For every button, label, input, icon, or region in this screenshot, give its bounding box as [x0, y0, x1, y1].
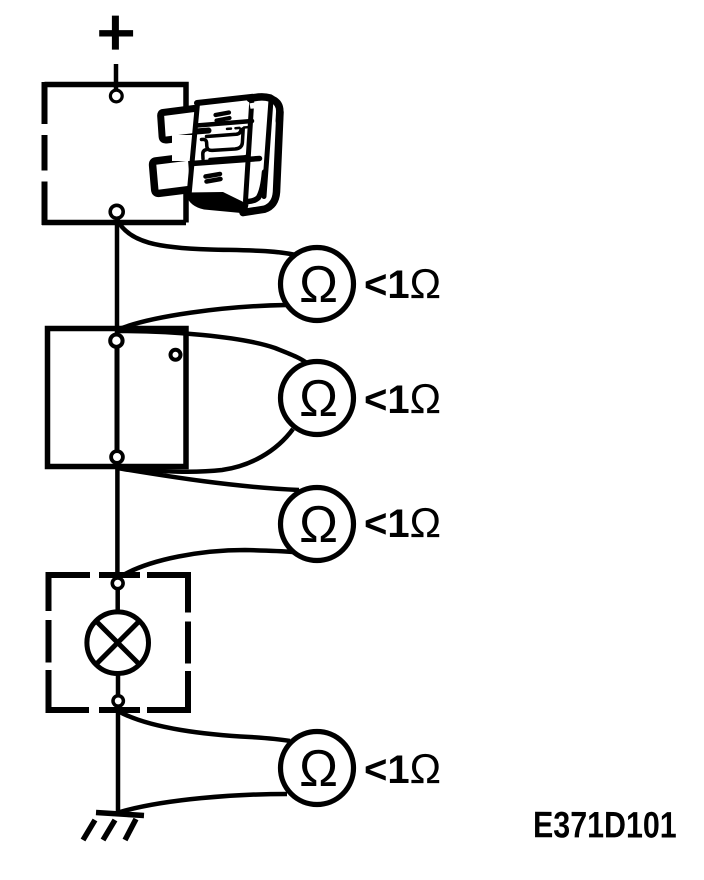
fuse top right white notch — [250, 102, 259, 109]
wire switch bottom to lamp top terminal — [115, 464, 120, 578]
fuse top band ticks — [227, 127, 252, 129]
fuse side panel right edge — [243, 112, 280, 213]
ohmmeter M2 — [281, 362, 354, 435]
wire lamp box internal lower — [116, 674, 121, 696]
terminal node fuse box bottom — [110, 205, 123, 218]
svg-text:<1Ω: <1Ω — [364, 260, 441, 307]
wire from + to fuse box — [114, 64, 119, 90]
ohmmeter M4 — [281, 732, 354, 805]
switch box — [48, 329, 187, 467]
wire W7 lamp bottom terminal to ohmmeter4 — [118, 711, 290, 741]
fuse box (dashed outline) — [42, 82, 186, 225]
svg-text:<1Ω: <1Ω — [364, 745, 441, 792]
ohmmeter M3 — [281, 488, 354, 561]
fuse body bottom edge (filled band) — [186, 192, 248, 214]
fuse rating mark lower — [206, 174, 221, 182]
svg-text:Ω: Ω — [299, 256, 338, 314]
fuse body left edge — [189, 104, 198, 198]
fuse element bottom wall — [202, 129, 244, 151]
fuse body silhouette — [189, 95, 282, 213]
fuse body top edge — [197, 97, 252, 103]
fuse top band line — [197, 121, 253, 126]
wire W4 switch bottom terminal to ohmmeter2 — [117, 429, 293, 472]
wire switch internal — [115, 338, 120, 462]
wire lamp box internal upper — [115, 589, 120, 612]
fuse element left down hook — [203, 150, 207, 159]
terminal node lamp top — [112, 578, 123, 589]
terminal node switch bottom — [111, 451, 123, 463]
svg-text:E371D101: E371D101 — [533, 805, 677, 847]
fuse body top right corner — [250, 97, 280, 121]
fuse face right boundary — [246, 98, 253, 202]
fuse bottom band line — [192, 159, 260, 164]
battery positive symbol + — [99, 16, 133, 50]
wire W8 ground lead to ohmmeter4 — [120, 794, 287, 812]
svg-text:<1Ω: <1Ω — [364, 375, 441, 422]
fuse side panel inner line — [264, 100, 271, 197]
upper blade prong — [161, 108, 200, 140]
wire W1 fuse terminal to ohmmeter1 — [117, 219, 296, 255]
svg-text:Ω: Ω — [299, 740, 338, 798]
fuse element right outer wall — [210, 129, 250, 160]
terminal node fuse box top — [110, 90, 122, 102]
lamp L1 — [87, 612, 149, 674]
ground symbol — [83, 813, 144, 841]
wire W3 switch top terminal to ohmmeter2 — [117, 331, 308, 364]
white tab between prongs — [172, 135, 198, 161]
svg-text:Ω: Ω — [299, 496, 338, 554]
lamp box (dashed outline) — [49, 575, 189, 710]
fuse rating mark upper — [216, 113, 230, 121]
fuse side panel inner line hook — [248, 172, 265, 202]
ohmmeter M1 — [281, 248, 354, 321]
fuse element top wall — [207, 130, 242, 137]
terminal node switch top — [110, 335, 122, 347]
wire fuse bottom terminal to switch top terminal — [115, 218, 120, 334]
fuse F1 pictorial — [153, 95, 282, 214]
wire W5 switch bottom terminal to ohmmeter3 — [117, 468, 299, 490]
wire lamp bottom terminal to ground — [116, 706, 121, 816]
fuse element left stub — [196, 131, 209, 132]
lower blade prong — [153, 157, 194, 193]
wire W6 ohmmeter3 to lamp top terminal — [118, 550, 293, 578]
svg-text:<1Ω: <1Ω — [364, 499, 441, 546]
switch box small circle — [171, 350, 181, 360]
svg-text:Ω: Ω — [299, 370, 338, 428]
terminal node lamp bottom — [113, 696, 123, 706]
wire W2 ohmmeter1 to switch top terminal — [117, 305, 286, 330]
